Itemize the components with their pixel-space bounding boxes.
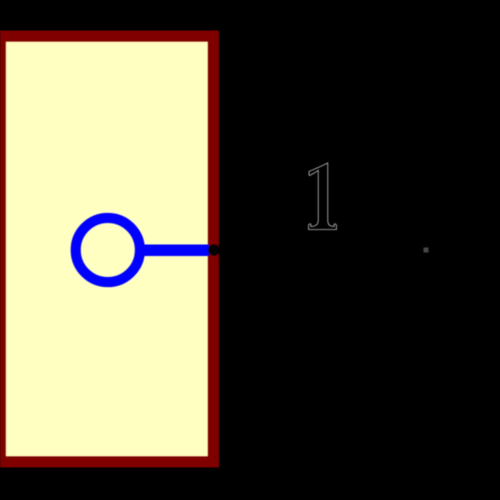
component body U1 [0, 36, 213, 462]
pin end dot (black) [208, 244, 219, 255]
wire (pin 1 line) [138, 244, 209, 256]
grid anchor dot [424, 248, 429, 253]
pin number 1 [309, 164, 336, 230]
inversion bubble (pin 1) [76, 218, 140, 282]
